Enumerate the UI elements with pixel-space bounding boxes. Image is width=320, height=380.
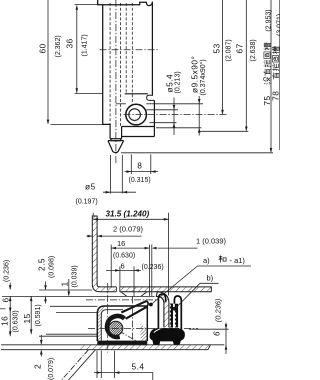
knuckle housing outline [122, 94, 155, 137]
seal retainer U-channel left jaw [158, 294, 165, 330]
seal retainer U-channel right jaw [174, 296, 181, 331]
svg-text:ø9.5x90°: ø9.5x90° [190, 56, 200, 93]
horizontal center line of body hole [100, 49, 159, 51]
svg-text:ø5.4: ø5.4 [164, 74, 174, 93]
weld seam trapezoid under leg [121, 292, 147, 297]
left dimension 16 [10, 296, 97, 336]
dimension 2 (wall) [87, 235, 142, 237]
leader line b [175, 283, 219, 308]
housing wall hatch (left) [97, 306, 105, 341]
svg-text:6: 6 [0, 297, 10, 302]
svg-text:(1.417): (1.417) [82, 34, 89, 56]
dimension line o5.4 [146, 98, 178, 136]
svg-text:(0.098): (0.098) [48, 256, 55, 278]
svg-text:2 (0.079): 2 (0.079) [113, 224, 144, 233]
housing inner wall contour [101, 310, 123, 341]
bulb highlight arc [154, 328, 169, 333]
dimension 53 [222, 0, 224, 114]
circlip groove notch [147, 95, 155, 100]
housing block outline [97, 306, 147, 341]
svg-text:6: 6 [121, 262, 125, 271]
svg-text:a): a) [203, 256, 210, 265]
svg-text:78: 78 [270, 91, 280, 101]
dimension 5.4 [94, 351, 153, 380]
svg-text:(0.630): (0.630) [113, 252, 135, 259]
hinge body outline [98, 0, 153, 124]
svg-text:b): b) [207, 273, 214, 282]
svg-text:(0.213): (0.213) [175, 71, 182, 93]
dimension 31.5 [93, 213, 168, 296]
svg-text:(0.197): (0.197) [76, 198, 98, 205]
pin tip cone [108, 139, 124, 153]
right dimension 6 (seal height) [189, 323, 229, 355]
seam diagonal center line [119, 331, 143, 345]
svg-text:(0.039): (0.039) [72, 265, 79, 287]
left dimension 2.5 [46, 282, 98, 307]
svg-text:15: 15 [22, 313, 32, 323]
svg-text:(0.236): (0.236) [4, 260, 11, 282]
svg-text:16: 16 [0, 316, 10, 326]
svg-text:60: 60 [37, 43, 47, 53]
svg-text:36: 36 [64, 38, 74, 48]
pin center line (dash-dot) [115, 0, 117, 164]
rubber seal bulb (black) [150, 328, 185, 341]
dimension 1 (gap) [152, 245, 198, 297]
bottom dimension 2 (plate) [40, 335, 42, 357]
svg-text:53: 53 [211, 43, 221, 53]
svg-text:8: 8 [137, 160, 142, 170]
rubber grip ribs (black) [170, 304, 178, 328]
dimension 6 (top) [106, 267, 141, 297]
hinge pin shaft [110, 124, 122, 138]
leader line a [151, 266, 251, 305]
left dimension 15 [31, 296, 97, 334]
dimension 67 [200, 0, 248, 131]
svg-text:2.5: 2.5 [37, 258, 47, 271]
leader dot b [173, 307, 177, 311]
weld section diagonals [62, 350, 96, 380]
dimension 36 [75, 5, 103, 94]
dimension line o9.5x90 [154, 96, 203, 136]
bent sheet edge holding seal [156, 292, 169, 332]
dimension 60 [48, 0, 102, 124]
dimension 78 (with circlip groove, clipped at right edge) [279, 0, 281, 150]
knuckle axis center line [124, 114, 227, 116]
svg-text:(2.953): (2.953) [265, 9, 272, 31]
svg-text:1 (0.039): 1 (0.039) [196, 237, 227, 246]
dimension 75 (without circlip groove) [121, 0, 273, 153]
svg-text:1: 1 [60, 281, 70, 286]
dimension 16 (top) [111, 245, 149, 297]
pin cross-section (hatched circle) [106, 309, 126, 347]
svg-text:31.5 (1.240): 31.5 (1.240) [106, 209, 150, 218]
extension line to bend [2, 295, 155, 297]
svg-text:(0.630): (0.630) [13, 310, 20, 332]
housing floor (solid) [97, 341, 147, 346]
svg-text:ø5: ø5 [85, 182, 96, 192]
welded angle profile (hatched L) [92, 216, 211, 293]
svg-text:(2.638): (2.638) [250, 39, 257, 61]
svg-text:6: 6 [212, 331, 221, 336]
svg-text:(2.362): (2.362) [55, 35, 62, 57]
ground plate [1, 345, 224, 350]
svg-text:16: 16 [117, 239, 125, 248]
dimension 8 [125, 154, 159, 174]
svg-text:- a1): - a1) [230, 256, 246, 265]
knuckle outer circle [126, 104, 147, 125]
bulb feet [152, 340, 160, 345]
rolled lip wedge [121, 301, 148, 319]
svg-text:(0.315): (0.315) [129, 177, 151, 184]
dimension o5 (pin) [103, 155, 136, 194]
svg-text:(2.087): (2.087) [226, 39, 233, 61]
svg-text:(0.236): (0.236) [214, 298, 223, 322]
knuckle edge lines [116, 103, 155, 105]
svg-text:2: 2 [32, 364, 42, 369]
hidden lines inside body (dashed) [110, 3, 132, 126]
svg-text:(0.591): (0.591) [35, 304, 42, 326]
left dimension 6 [10, 283, 92, 290]
housing corner hatch (right) [141, 324, 148, 342]
center line vertical (seam) [131, 297, 133, 342]
svg-text:(0.236): (0.236) [142, 264, 164, 271]
center line horizontal (upper) [86, 299, 158, 301]
svg-text:(0.374x90°): (0.374x90°) [199, 59, 207, 95]
center line vertical (pin axis) [107, 283, 109, 353]
left dimension 1 [56, 279, 97, 312]
svg-text:5.4: 5.4 [132, 361, 145, 371]
svg-text:67: 67 [235, 43, 245, 53]
svg-text:(3.071): (3.071) [276, 14, 280, 36]
center line horizontal (pin axis) [88, 327, 198, 329]
leader dot a1 [149, 303, 153, 307]
rolled knuckle (thick arc) [107, 316, 124, 337]
svg-text:(0.079): (0.079) [48, 358, 55, 380]
knuckle inner circle [129, 109, 141, 121]
